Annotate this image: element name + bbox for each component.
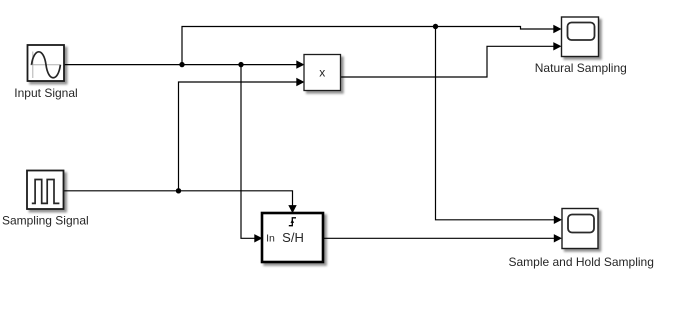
block: Scope (Natural Sampling) (562, 17, 599, 57)
wire: S/H output to Sample and Hold scope input 2 (323, 234, 562, 242)
block: Sample and Hold S/H (262, 213, 323, 262)
wire: branch down from top line to Sample and Hold scope input 1 (436, 27, 563, 225)
svg-text:In: In (266, 233, 275, 245)
wire: branch up from pulse line to Product input 2 (179, 78, 305, 191)
block: Pulse Generator (Sampling Signal) (27, 171, 64, 210)
svg-text:x: x (319, 66, 325, 80)
svg-text:Natural Sampling: Natural Sampling (535, 61, 627, 75)
svg-text:Input Signal: Input Signal (14, 86, 77, 100)
svg-text:S/H: S/H (282, 230, 304, 245)
svg-text:Sample and Hold Sampling: Sample and Hold Sampling (508, 255, 653, 269)
wire: branch down from sine line to S/H In input (241, 65, 263, 243)
junction: pulse line to product branch (176, 188, 181, 193)
block: Scope (Sample and Hold Sampling) (562, 209, 598, 249)
wire: branch up from sine line to Natural Sampling scope input 1 (182, 25, 562, 65)
junction: top line to scope 2 branch (433, 24, 438, 29)
svg-text:Sampling Signal: Sampling Signal (2, 214, 89, 228)
wire: Product output to Natural Sampling scope input 2 (341, 42, 562, 77)
junction: sine line to top branch (179, 62, 184, 67)
wire: Pulse Generator output to S/H trigger input (64, 191, 297, 214)
wire: Sine Wave output to Product input 1 (64, 60, 305, 68)
junction: sine line to S/H In branch (238, 62, 243, 67)
block: Sine Wave source (Input Signal) (28, 45, 65, 81)
trigger port icon on S/H block (289, 218, 296, 226)
block: Product (x) (304, 55, 341, 91)
